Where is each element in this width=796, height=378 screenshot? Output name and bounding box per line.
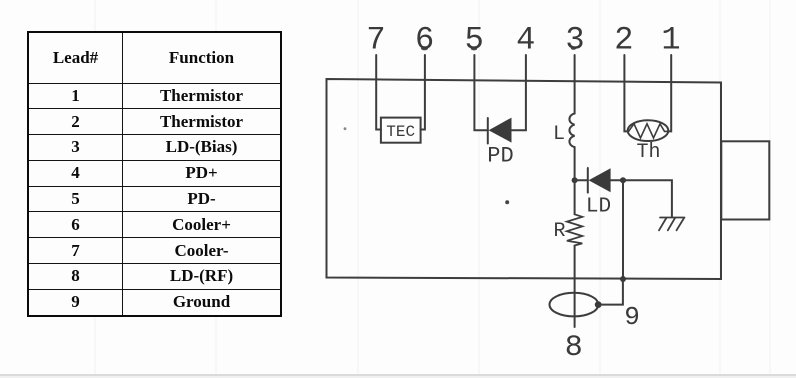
node B junction dot xyxy=(620,177,626,183)
wire pin2 lead xyxy=(624,55,628,131)
resistor R xyxy=(567,214,582,245)
svg-text:1: 1 xyxy=(661,22,680,59)
TEC cooler box U1 xyxy=(381,118,421,143)
svg-text:4: 4 xyxy=(516,22,535,59)
wire pin7 lead xyxy=(376,55,381,130)
svg-text:TEC: TEC xyxy=(386,123,415,141)
svg-text:8: 8 xyxy=(565,331,583,365)
svg-text:Th: Th xyxy=(636,141,660,164)
wire bead to node C (pin 9 path) xyxy=(598,279,623,305)
wire pin1 lead xyxy=(668,55,672,131)
wire pin3 lead xyxy=(574,55,576,114)
inductor L xyxy=(569,114,574,148)
svg-text:5: 5 xyxy=(465,22,484,59)
laser diode LD xyxy=(587,168,589,193)
svg-text:2: 2 xyxy=(614,22,633,59)
wire pin6 lead xyxy=(421,55,425,130)
RF feedthrough bead (pin 8) xyxy=(550,293,599,317)
wire node A to resistor xyxy=(574,180,576,214)
wire node B to bottom rail xyxy=(622,180,624,279)
wire LD to node B xyxy=(611,179,623,181)
wire node A to LD xyxy=(575,179,588,181)
svg-text:6: 6 xyxy=(415,22,434,59)
svg-text:LD: LD xyxy=(586,196,611,219)
svg-text:7: 7 xyxy=(366,22,385,59)
wire node B to ground xyxy=(623,180,672,217)
wire R to pin8 feedthrough xyxy=(574,246,576,328)
svg-text:3: 3 xyxy=(565,22,584,59)
svg-text:9: 9 xyxy=(624,302,640,332)
fiber flange on right xyxy=(721,141,769,219)
svg-text:L: L xyxy=(553,123,565,146)
svg-text:PD: PD xyxy=(487,144,513,169)
package outline (butterfly module body) xyxy=(327,79,722,279)
thermistor Th xyxy=(628,120,669,141)
node A junction dot (LD anode) xyxy=(572,177,578,183)
node C junction dot on bottom rail xyxy=(620,276,626,282)
node D dot at bead output xyxy=(595,301,602,308)
photodiode PD xyxy=(487,118,489,144)
lead function table xyxy=(27,31,282,317)
ground xyxy=(659,218,685,231)
svg-text:R: R xyxy=(553,220,565,243)
wire L to LD node xyxy=(574,147,576,180)
wire pin5 lead xyxy=(474,55,487,130)
wire pin4 lead xyxy=(512,55,526,130)
